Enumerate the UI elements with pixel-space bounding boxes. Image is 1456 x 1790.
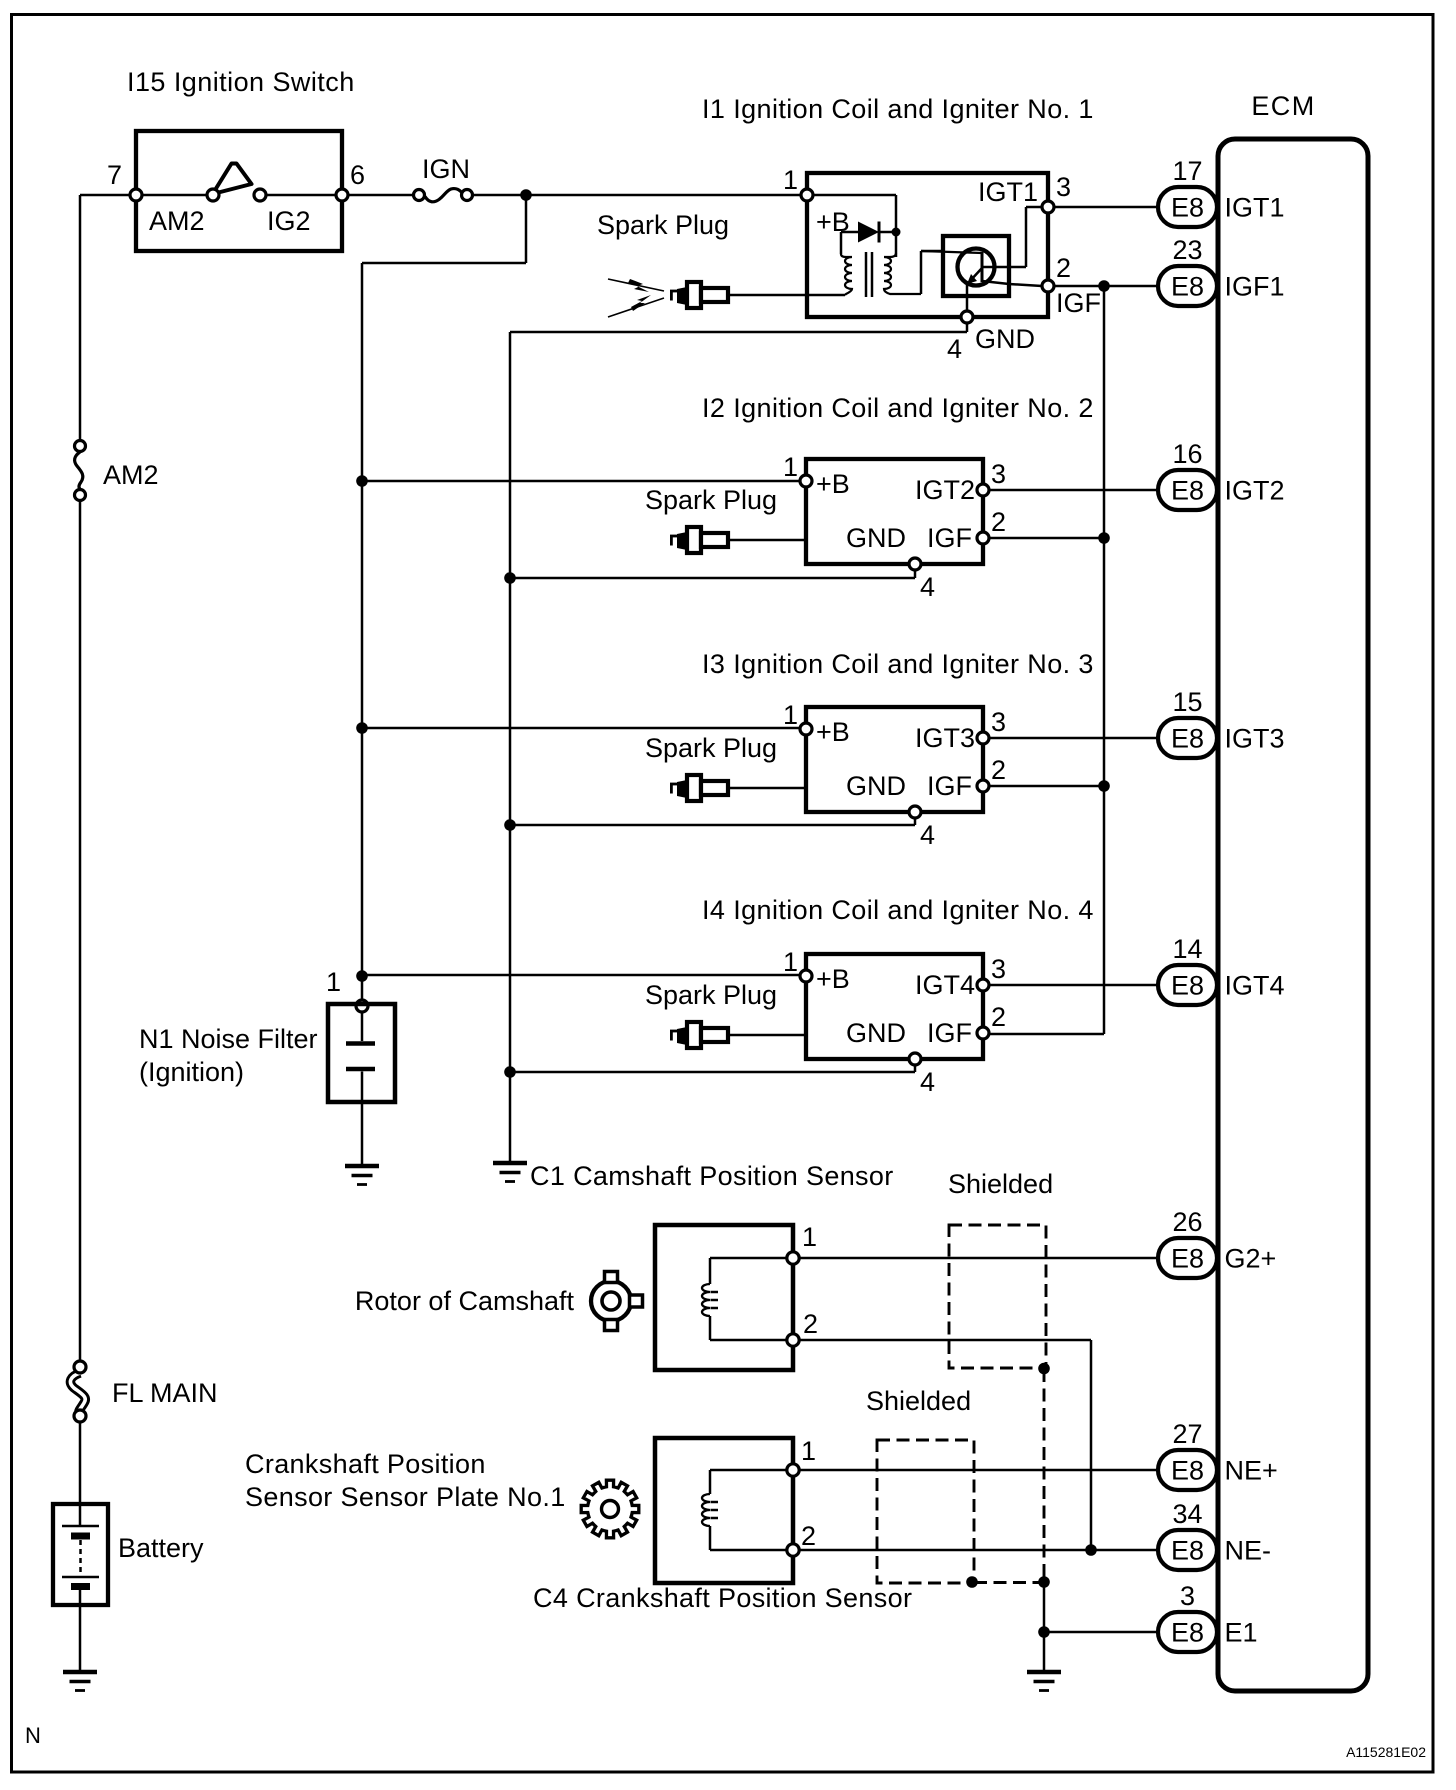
svg-text:2: 2 — [991, 1002, 1006, 1032]
svg-text:ECM: ECM — [1251, 91, 1315, 121]
svg-text:IGF1: IGF1 — [1225, 272, 1285, 302]
svg-text:Spark Plug: Spark Plug — [645, 485, 777, 515]
svg-text:4: 4 — [920, 820, 935, 850]
svg-text:IGT1: IGT1 — [1225, 193, 1285, 223]
svg-text:FL MAIN: FL MAIN — [112, 1378, 218, 1408]
svg-text:AM2: AM2 — [149, 206, 205, 236]
svg-text:E8: E8 — [1171, 1536, 1204, 1566]
svg-text:IGF: IGF — [927, 1018, 972, 1048]
svg-text:IGT3: IGT3 — [1225, 724, 1285, 754]
svg-text:E8: E8 — [1171, 1456, 1204, 1486]
svg-text:N1 Noise Filter: N1 Noise Filter — [139, 1024, 318, 1054]
svg-text:E8: E8 — [1171, 476, 1204, 506]
svg-text:6: 6 — [350, 160, 365, 190]
svg-text:E8: E8 — [1171, 724, 1204, 754]
svg-text:IGT1: IGT1 — [978, 177, 1038, 207]
svg-text:2: 2 — [803, 1309, 818, 1339]
svg-text:2: 2 — [991, 507, 1006, 537]
svg-text:34: 34 — [1172, 1499, 1202, 1529]
svg-text:I4 Ignition Coil and Igniter N: I4 Ignition Coil and Igniter No. 4 — [702, 895, 1094, 925]
svg-text:3: 3 — [1180, 1581, 1195, 1611]
svg-text:+B: +B — [816, 469, 850, 499]
svg-text:Spark Plug: Spark Plug — [597, 210, 729, 240]
svg-text:I2 Ignition Coil and Igniter N: I2 Ignition Coil and Igniter No. 2 — [702, 393, 1094, 423]
svg-text:GND: GND — [846, 523, 906, 553]
svg-text:1: 1 — [802, 1222, 817, 1252]
svg-text:1: 1 — [801, 1436, 816, 1466]
svg-text:+B: +B — [816, 717, 850, 747]
svg-text:4: 4 — [920, 572, 935, 602]
svg-text:I15 Ignition Switch: I15 Ignition Switch — [127, 67, 355, 97]
svg-text:(Ignition): (Ignition) — [139, 1057, 244, 1087]
svg-text:IGT3: IGT3 — [915, 723, 975, 753]
svg-text:NE-: NE- — [1225, 1536, 1272, 1566]
svg-text:Spark Plug: Spark Plug — [645, 733, 777, 763]
svg-text:3: 3 — [991, 954, 1006, 984]
svg-text:17: 17 — [1172, 156, 1202, 186]
svg-text:27: 27 — [1172, 1419, 1202, 1449]
svg-text:GND: GND — [846, 1018, 906, 1048]
svg-text:IGT4: IGT4 — [915, 970, 975, 1000]
svg-text:1: 1 — [783, 700, 798, 730]
svg-text:E1: E1 — [1225, 1618, 1258, 1648]
svg-text:3: 3 — [1056, 172, 1071, 202]
svg-text:14: 14 — [1172, 934, 1202, 964]
svg-text:Spark Plug: Spark Plug — [645, 980, 777, 1010]
svg-text:4: 4 — [947, 334, 962, 364]
svg-text:C4 Crankshaft Position Sensor: C4 Crankshaft Position Sensor — [533, 1583, 912, 1613]
svg-text:A115281E02: A115281E02 — [1346, 1744, 1426, 1760]
svg-text:26: 26 — [1172, 1207, 1202, 1237]
svg-text:2: 2 — [1056, 253, 1071, 283]
svg-text:IGF: IGF — [927, 523, 972, 553]
svg-text:E8: E8 — [1171, 1244, 1204, 1274]
svg-text:IGT2: IGT2 — [1225, 476, 1285, 506]
svg-text:IGF: IGF — [927, 771, 972, 801]
svg-text:E8: E8 — [1171, 1618, 1204, 1648]
svg-text:C1 Camshaft Position Sensor: C1 Camshaft Position Sensor — [530, 1161, 894, 1191]
svg-text:15: 15 — [1172, 687, 1202, 717]
svg-text:23: 23 — [1172, 235, 1202, 265]
svg-text:E8: E8 — [1171, 193, 1204, 223]
svg-text:Shielded: Shielded — [948, 1169, 1053, 1199]
svg-text:IGT2: IGT2 — [915, 475, 975, 505]
svg-text:I3 Ignition Coil and Igniter N: I3 Ignition Coil and Igniter No. 3 — [702, 649, 1094, 679]
svg-text:16: 16 — [1172, 439, 1202, 469]
svg-text:+B: +B — [816, 207, 850, 237]
svg-text:7: 7 — [107, 160, 122, 190]
svg-text:2: 2 — [801, 1521, 816, 1551]
svg-text:E8: E8 — [1171, 272, 1204, 302]
svg-text:I1 Ignition Coil and Igniter N: I1 Ignition Coil and Igniter No. 1 — [702, 94, 1094, 124]
svg-text:4: 4 — [920, 1067, 935, 1097]
svg-text:Battery: Battery — [118, 1533, 204, 1563]
svg-text:Crankshaft Position: Crankshaft Position — [245, 1449, 486, 1479]
svg-text:1: 1 — [783, 165, 798, 195]
svg-text:IGT4: IGT4 — [1225, 971, 1285, 1001]
svg-text:IGN: IGN — [422, 154, 470, 184]
svg-text:GND: GND — [846, 771, 906, 801]
svg-text:IGF: IGF — [1056, 288, 1101, 318]
svg-text:1: 1 — [326, 967, 341, 997]
svg-text:GND: GND — [975, 324, 1035, 354]
svg-text:N: N — [25, 1723, 41, 1748]
svg-text:AM2: AM2 — [103, 460, 159, 490]
svg-text:G2+: G2+ — [1225, 1244, 1277, 1274]
svg-text:NE+: NE+ — [1225, 1456, 1278, 1486]
svg-text:2: 2 — [991, 755, 1006, 785]
svg-text:IG2: IG2 — [267, 206, 311, 236]
svg-text:Shielded: Shielded — [866, 1386, 971, 1416]
svg-text:3: 3 — [991, 707, 1006, 737]
svg-text:E8: E8 — [1171, 971, 1204, 1001]
svg-text:1: 1 — [783, 452, 798, 482]
svg-text:1: 1 — [783, 947, 798, 977]
svg-text:Sensor Sensor Plate No.1: Sensor Sensor Plate No.1 — [245, 1482, 566, 1512]
svg-text:3: 3 — [991, 459, 1006, 489]
svg-text:Rotor of Camshaft: Rotor of Camshaft — [355, 1286, 575, 1316]
svg-text:+B: +B — [816, 964, 850, 994]
